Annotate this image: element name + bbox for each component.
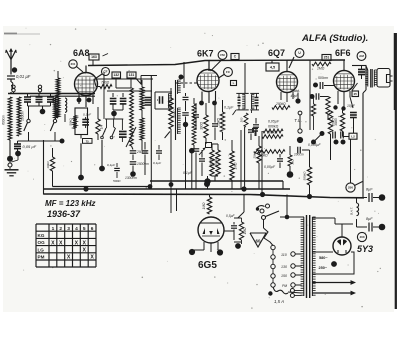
- wire 6F6 k join: [343, 131, 350, 137]
- svg-text:0,1µF: 0,1µF: [83, 113, 92, 117]
- capacitor coupling2: [316, 93, 328, 100]
- fuse: [273, 287, 302, 294]
- capacitor 6K7 k2: [212, 103, 218, 140]
- capacitor det a: [333, 132, 339, 145]
- junction dot osc c: [111, 110, 123, 116]
- svg-text:4: 4: [75, 226, 78, 232]
- junction dot avc: [179, 75, 184, 80]
- wire vert 253: [252, 112, 254, 157]
- resistor 250k: [272, 102, 290, 109]
- heater arrow 2: [312, 291, 356, 296]
- resistor k3: [192, 98, 196, 149]
- wire osc row: [105, 114, 123, 128]
- junction dot osc drop: [78, 175, 84, 181]
- resistor grid 6F6: [326, 97, 330, 121]
- label osc coil a: [53, 102, 57, 111]
- box 23: [349, 133, 357, 139]
- capacitor 0.05uF left: [14, 141, 27, 151]
- junction dot cluster: [130, 171, 136, 177]
- tube 5Y3: [333, 237, 351, 255]
- box 25: [352, 83, 359, 97]
- svg-text:1MΩ: 1MΩ: [317, 67, 325, 71]
- svg-text:100kΩ: 100kΩ: [267, 131, 278, 135]
- svg-text:163: 163: [91, 55, 97, 59]
- coil L1 aerial: [8, 97, 12, 140]
- capacitor 0.1uF mid2: [153, 145, 162, 165]
- wire 5Y3 top: [335, 224, 353, 237]
- svg-text:1500cm: 1500cm: [137, 162, 149, 166]
- resistor 100k: [262, 135, 283, 139]
- box below osc: [83, 139, 93, 144]
- resistor 50k osc: [94, 79, 153, 91]
- label Padd: [291, 89, 300, 93]
- label 50k pair: [210, 158, 218, 167]
- capacitor IF2 low: [252, 129, 258, 137]
- capacitor 8uF bot: [357, 223, 380, 232]
- wire secondary top: [312, 218, 335, 224]
- wire IF2 feeds: [245, 63, 252, 113]
- box 163: [89, 54, 108, 61]
- scan right edge bar: [394, 33, 395, 309]
- wire trimmer bottoms: [28, 105, 51, 107]
- svg-text:LG: LG: [38, 247, 45, 252]
- wire 6Q7 drop: [261, 131, 263, 195]
- svg-text:300: 300: [240, 117, 244, 122]
- capacitor k1: [183, 93, 189, 111]
- coil L2 aerial: [17, 97, 21, 136]
- wire bus feeders: [171, 181, 177, 213]
- badge 250: [346, 182, 363, 193]
- wire bus lower: [44, 194, 365, 198]
- badge 400: [357, 232, 366, 241]
- resistor IF2 bottom: [240, 113, 249, 127]
- svg-text:6F6: 6F6: [335, 48, 351, 58]
- wire 6A8 plate cap: [86, 60, 93, 73]
- pin badge 6Q7: [289, 49, 304, 68]
- coil L3: [54, 97, 58, 118]
- tube 6F6: [334, 71, 355, 92]
- tap terminal extra b: [290, 294, 301, 298]
- svg-text:1,5 A: 1,5 A: [274, 299, 284, 304]
- capacitor 6Q7 a: [277, 154, 283, 168]
- IF1 bracket: [155, 92, 172, 109]
- resistor 500k drop: [303, 150, 312, 195]
- pin badge 6K7: [218, 51, 227, 60]
- svg-text:250kΩ: 250kΩ: [275, 102, 286, 106]
- label 600k: [268, 125, 279, 129]
- wire antenna down: [10, 70, 12, 75]
- svg-text:ALFA (Studio).: ALFA (Studio).: [301, 33, 368, 44]
- pins 6A8: [79, 94, 93, 107]
- junction dot bus b: [204, 181, 210, 187]
- label 0.05uF: [23, 144, 37, 149]
- IF1 can top: [141, 76, 157, 93]
- circle TU mid: [298, 115, 302, 133]
- coil antenna series: [11, 82, 13, 89]
- capacitor coupling hf: [320, 82, 334, 89]
- svg-text:500kΩ: 500kΩ: [258, 154, 268, 158]
- svg-text:131: 131: [129, 73, 135, 77]
- junction dot bus d: [260, 192, 265, 197]
- wire 6Q7 top: [286, 60, 288, 72]
- tube 6Q7: [277, 72, 298, 93]
- svg-text:0,1µF: 0,1µF: [107, 163, 116, 167]
- label 1M g: [243, 227, 247, 234]
- svg-text:130: 130: [281, 265, 287, 269]
- label 10uF q: [291, 94, 300, 98]
- wire below switches: [27, 140, 62, 142]
- IF1 capacitor: [145, 96, 163, 105]
- wire primary top: [302, 216, 304, 218]
- coil osc left a: [55, 71, 61, 118]
- svg-text:8µF: 8µF: [366, 188, 373, 192]
- resistor left vert: [46, 148, 55, 187]
- junction dot trimmers: [40, 106, 46, 114]
- mark diagonal osc: [126, 127, 136, 147]
- svg-text:5Y3: 5Y3: [357, 244, 373, 254]
- label tube 6Q7: [268, 48, 285, 58]
- box 251: [322, 55, 331, 61]
- tube 6A8: [75, 73, 98, 96]
- capacitor k2: [182, 113, 189, 122]
- pins 6F6: [338, 91, 350, 108]
- resistor osc box edge: [69, 116, 77, 129]
- svg-text:6: 6: [91, 226, 94, 232]
- label 0.005uF: [308, 143, 321, 147]
- pin badge 6A8: [69, 60, 83, 72]
- terminal dot 8uF top: [379, 194, 386, 201]
- junction dot 6Q7 k: [295, 93, 300, 104]
- wire vert 175: [175, 80, 177, 140]
- IF1 coil bottom: [178, 108, 181, 134]
- coil osc tank a: [140, 80, 144, 115]
- junction dot 580: [331, 261, 337, 267]
- resistor 6G5 par: [234, 218, 244, 244]
- capacitor 8uF top: [364, 193, 379, 202]
- wire mains vert: [286, 195, 288, 218]
- svg-text:1936-37: 1936-37: [47, 209, 81, 219]
- junction dot coupl: [313, 83, 318, 88]
- badge CF 6A8: [96, 68, 110, 79]
- resistor 1k q: [288, 146, 295, 166]
- svg-text:600cm: 600cm: [2, 115, 6, 125]
- junction dot coupl2: [310, 94, 315, 99]
- label 150cm: [137, 162, 149, 166]
- heater arrow 1: [312, 280, 356, 285]
- label 0.05uF q2: [264, 165, 276, 169]
- label 0.1uF 6K7: [224, 106, 234, 110]
- label TU: [295, 118, 302, 123]
- resistor 1M coupling: [312, 62, 331, 70]
- scan top-left mark: [4, 33, 40, 36]
- trimmer capacitor 2: [36, 94, 43, 107]
- svg-text:20kΩ: 20kΩ: [217, 118, 221, 127]
- selector chain: [271, 245, 275, 287]
- switch pad a: [101, 127, 107, 139]
- tap terminal extra a: [290, 289, 301, 293]
- pin dot 6F6 b: [341, 106, 345, 110]
- svg-text:500kΩ: 500kΩ: [303, 171, 307, 181]
- switch S1 waveband: [24, 106, 30, 141]
- wire bus mid: [44, 188, 291, 190]
- svg-text:10kΩ: 10kΩ: [46, 161, 50, 169]
- IF1 coil top: [178, 80, 181, 94]
- mark diagonal box131: [136, 79, 142, 85]
- junction dot osc left: [60, 122, 66, 144]
- pin dot 6K7 a: [199, 101, 204, 106]
- svg-text:0,01 µF: 0,01 µF: [16, 74, 31, 79]
- pickup terminals: [256, 204, 270, 213]
- IF transformer 2 unit a: [236, 93, 248, 110]
- pointer box F: [199, 143, 212, 156]
- resistor osc fb: [96, 107, 104, 140]
- svg-text:X: X: [83, 240, 87, 246]
- junction dot ground: [7, 156, 13, 162]
- pin wire 6G5 left: [193, 249, 204, 251]
- switch pad b: [110, 127, 115, 139]
- svg-text:1: 1: [52, 226, 55, 232]
- capacitor 6F6 k: [350, 97, 357, 133]
- resistor 50k pair a: [210, 144, 214, 176]
- pins 6G5: [204, 242, 218, 252]
- label fuse: [274, 299, 284, 304]
- pin dot 6A8 a: [77, 98, 82, 103]
- label 500o b: [113, 179, 121, 183]
- svg-text:400: 400: [359, 235, 364, 239]
- svg-text:3: 3: [67, 226, 70, 232]
- label MF: [45, 199, 95, 208]
- svg-text:50kΩ: 50kΩ: [210, 163, 218, 167]
- wire mains drop: [264, 220, 274, 246]
- label 8uF top: [366, 188, 373, 192]
- svg-text:PM: PM: [38, 255, 45, 260]
- capacitor 6K7 k1: [193, 103, 199, 130]
- pins 6Q7: [281, 92, 293, 102]
- IF1 coil: [169, 94, 172, 109]
- ground terminal circle: [8, 162, 12, 169]
- junction dot res pair: [204, 176, 210, 189]
- junction dot k: [183, 122, 188, 189]
- resistor 6F6 cathode: [334, 109, 345, 132]
- junction dot 0.05: [15, 151, 21, 157]
- switch S2 waveband: [50, 118, 56, 141]
- svg-text:300Ω: 300Ω: [200, 122, 204, 130]
- wire IF2 drop: [233, 110, 245, 189]
- svg-text:8µF: 8µF: [366, 217, 373, 221]
- label 10uF f: [347, 104, 356, 108]
- pin dot 6K7 b: [212, 101, 217, 106]
- svg-text:200cm: 200cm: [21, 111, 25, 122]
- ground: [5, 170, 19, 176]
- wire osc box drop: [80, 135, 82, 177]
- svg-text:KG: KG: [38, 233, 45, 238]
- pin badge 6F6: [357, 52, 366, 61]
- wire OT return: [363, 90, 366, 198]
- label 0.1uF mid: [183, 171, 193, 175]
- resistor 600k: [263, 129, 283, 133]
- svg-text:PM: PM: [282, 284, 287, 288]
- capacitor 0.1uF mid: [199, 150, 205, 176]
- svg-text:B.A.T.: B.A.T.: [350, 206, 354, 215]
- svg-text:10µF: 10µF: [347, 104, 356, 108]
- svg-text:X: X: [67, 255, 71, 261]
- svg-text:132: 132: [113, 73, 119, 77]
- wire osc mid drop: [101, 140, 103, 166]
- svg-text:OG: OG: [38, 240, 46, 245]
- svg-text:50kΩ: 50kΩ: [69, 118, 73, 126]
- transformer primary: [301, 217, 304, 296]
- title ALFA: [301, 33, 368, 44]
- coil osc mid: [130, 88, 134, 146]
- svg-text:50kΩ: 50kΩ: [210, 158, 218, 162]
- resistor 313: [311, 97, 315, 131]
- antenna: [5, 48, 17, 70]
- svg-text:20kΩ: 20kΩ: [53, 102, 57, 111]
- junction dot bus c: [241, 186, 246, 191]
- svg-text:500cm: 500cm: [318, 76, 328, 80]
- coil top symbol b: [38, 85, 41, 93]
- svg-text:6A8: 6A8: [73, 48, 90, 58]
- svg-text:75: 75: [86, 139, 90, 143]
- svg-text:60: 60: [256, 239, 261, 244]
- svg-text:MF = 123 kHz: MF = 123 kHz: [45, 199, 95, 208]
- label years: [47, 209, 81, 219]
- speaker: [377, 69, 393, 88]
- capacitor osc a: [110, 93, 117, 110]
- svg-text:Padd.: Padd.: [291, 89, 300, 93]
- box LB: [231, 81, 237, 86]
- cluster cap b: [130, 162, 137, 172]
- label 0.05uF q: [268, 120, 280, 124]
- svg-text:200kΩ: 200kΩ: [173, 109, 177, 120]
- coil osc tank b: [140, 115, 144, 150]
- label 580: [319, 256, 328, 260]
- svg-text:X: X: [75, 240, 79, 246]
- svg-text:400Ω: 400Ω: [334, 118, 338, 126]
- wire antenna to bus: [10, 92, 12, 93]
- svg-text:500Ω: 500Ω: [113, 179, 121, 183]
- wire vert 241: [240, 130, 242, 189]
- svg-text:0,5µF: 0,5µF: [226, 214, 235, 218]
- label tube 6A8: [73, 48, 90, 58]
- wire left bus lower: [30, 95, 95, 97]
- capacitor mid k: [119, 119, 127, 142]
- svg-text:110: 110: [281, 253, 287, 257]
- resistor 1M 6G5: [202, 195, 212, 215]
- output transformer: [365, 66, 377, 90]
- switch mains: [262, 211, 305, 220]
- resistor 6K7 k: [200, 103, 209, 144]
- cluster cap c: [142, 142, 149, 175]
- capacitor IF2 out: [253, 118, 259, 136]
- wire vert 310: [309, 60, 311, 130]
- svg-text:1kΩ: 1kΩ: [291, 159, 295, 165]
- junction dot osc mid: [99, 166, 105, 172]
- svg-text:0,05µF: 0,05µF: [264, 165, 276, 169]
- svg-text:250~: 250~: [319, 266, 328, 270]
- box 45: [266, 60, 279, 71]
- label coil L2: [21, 111, 25, 122]
- svg-text:X: X: [51, 240, 55, 246]
- svg-text:FM: FM: [220, 53, 225, 57]
- resistor 20k tall: [328, 111, 335, 160]
- label 500cm c: [318, 76, 328, 80]
- svg-text:X: X: [83, 248, 87, 254]
- svg-text:1MΩ: 1MΩ: [234, 162, 238, 169]
- pins 6K7: [202, 91, 216, 103]
- wire bus 186: [53, 186, 153, 188]
- circle TU top: [298, 111, 302, 115]
- svg-text:1MΩ: 1MΩ: [243, 227, 247, 234]
- junction dot bus f: [148, 184, 153, 189]
- label tube 6G5: [198, 260, 217, 271]
- junction dot 6Q7 low: [287, 166, 294, 178]
- wire coil to ground: [10, 140, 18, 162]
- wire top bus: [88, 60, 345, 66]
- tap terminal PM: [282, 283, 302, 288]
- svg-text:580~: 580~: [319, 256, 328, 260]
- wire vert 151: [150, 75, 152, 189]
- box 131: [127, 72, 136, 78]
- svg-text:1/4: 1/4: [100, 125, 104, 130]
- wire 6K7 plate cap: [209, 60, 221, 71]
- pin dot 6A8 b: [87, 98, 92, 103]
- svg-text:250: 250: [348, 186, 353, 190]
- pin dot 6G5 b: [217, 249, 223, 255]
- tap terminal 110: [281, 252, 302, 257]
- capacitor osc b: [120, 93, 127, 110]
- svg-text:AM: AM: [359, 54, 364, 58]
- label tube 5Y3: [357, 244, 373, 254]
- IF transformer 2 unit b: [250, 93, 259, 110]
- svg-text:700Ω: 700Ω: [101, 81, 110, 85]
- resistor 50k pair b: [212, 144, 220, 176]
- svg-text:6G5: 6G5: [198, 260, 217, 271]
- junction dot bus e: [307, 194, 312, 199]
- resistor 500k: [254, 150, 285, 158]
- svg-text:600kΩ: 600kΩ: [268, 125, 279, 129]
- transformer core: [307, 215, 310, 298]
- tube 6K7: [197, 70, 219, 92]
- tube 6G5: [198, 217, 224, 243]
- label 100k q: [267, 131, 278, 135]
- resistor 6K7 g2: [217, 100, 225, 140]
- wire 5Y3 loop: [312, 252, 354, 274]
- box 132: [112, 72, 121, 78]
- label 0.01uF: [16, 74, 31, 79]
- wire bus upper: [150, 181, 283, 189]
- svg-text:25: 25: [354, 92, 358, 96]
- svg-text:0,05 µF: 0,05 µF: [23, 144, 37, 149]
- junction dot bus a: [83, 186, 88, 191]
- junction dot k3: [189, 148, 195, 189]
- svg-text:251: 251: [324, 56, 330, 60]
- trimmer capacitor 3: [47, 94, 54, 107]
- label coil L1: [2, 115, 6, 125]
- resistor 20k right: [253, 136, 262, 189]
- coil osc left b: [65, 98, 67, 122]
- svg-text:1300cm: 1300cm: [125, 176, 137, 180]
- wire box131 drop: [116, 78, 131, 88]
- svg-text:0,05µF: 0,05µF: [268, 120, 280, 124]
- wire 6F6 k down: [350, 139, 352, 183]
- capacitor IF2 out2: [248, 120, 254, 140]
- mark arrow IF1: [165, 132, 170, 139]
- label tube 6F6: [335, 48, 351, 58]
- terminal dot TU: [297, 137, 303, 143]
- wire res pair bottom: [212, 176, 218, 181]
- junction dot selector: [268, 291, 272, 295]
